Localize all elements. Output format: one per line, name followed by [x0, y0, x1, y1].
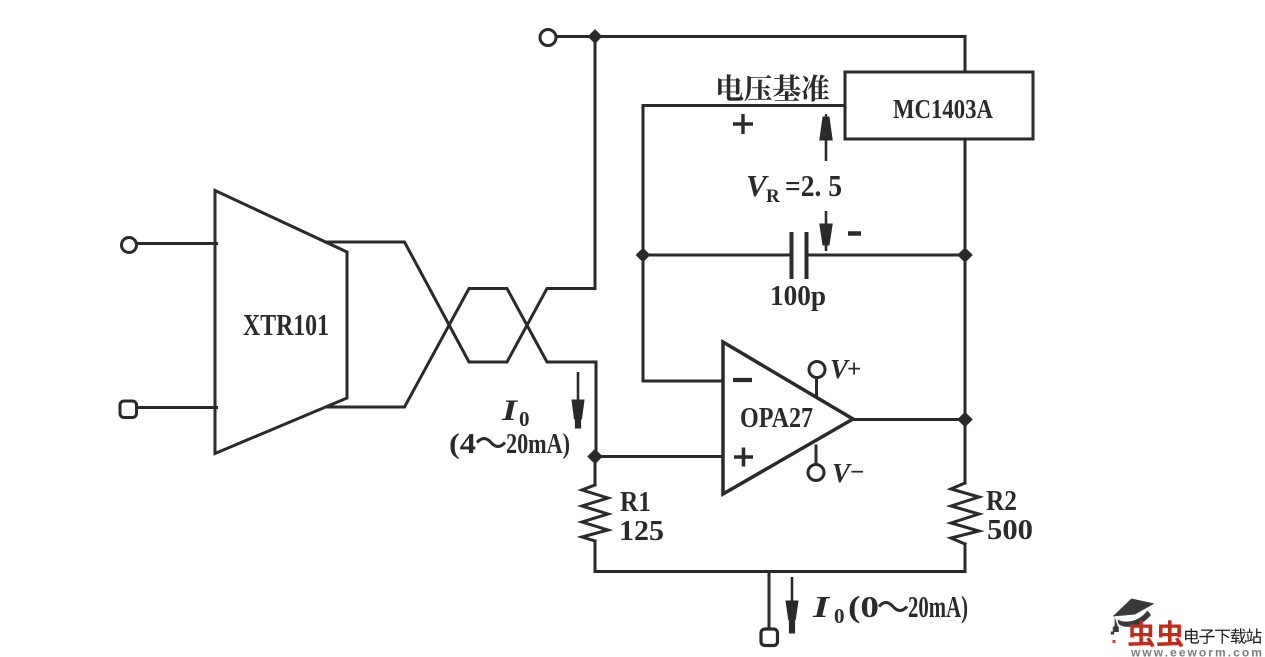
wire op-amp output — [853, 418, 965, 421]
terminal output top — [540, 30, 556, 46]
node cap left — [636, 248, 651, 263]
wire output stub — [768, 572, 771, 630]
node A — [587, 449, 603, 465]
arrow VR down — [820, 211, 832, 251]
wire right rail down to R2 — [964, 255, 967, 483]
pin V+ circle — [809, 362, 825, 378]
wire R2 to bottom rail — [964, 544, 967, 572]
svg-text:XTR101: XTR101 — [243, 307, 329, 342]
svg-text:(0: (0 — [848, 589, 879, 624]
wire input bottom — [137, 406, 217, 409]
watermark 电子下载站 — [1185, 628, 1261, 644]
svg-text:125: 125 — [619, 516, 664, 547]
node op-amp output — [957, 412, 973, 428]
svg-text:20mA): 20mA) — [506, 429, 570, 460]
voltage reference U2 MC1403A box — [845, 72, 1033, 139]
svg-text:(4: (4 — [449, 429, 476, 460]
pin V- circle — [808, 465, 824, 481]
svg-text:MC1403A: MC1403A — [893, 94, 993, 124]
svg-text:OPA27: OPA27 — [740, 403, 813, 434]
terminal input top-left — [122, 238, 137, 253]
svg-text:R2: R2 — [986, 486, 1017, 517]
svg-text:R1: R1 — [620, 487, 651, 518]
arrow I0 mid — [572, 372, 584, 428]
svg-text:R: R — [766, 186, 780, 207]
label 电压基准 voltage reference — [718, 74, 829, 101]
capacitor C1 right wire — [809, 254, 965, 257]
wire twisted-pair A from XTR101 top output to top rail — [326, 37, 595, 363]
svg-text:=2. 5: =2. 5 — [785, 168, 842, 203]
arrow VR up — [820, 114, 832, 161]
wire MC1403A bottom pin to cap node — [964, 139, 967, 255]
op-amp non-inverting label — [734, 448, 753, 467]
arrow I0 bottom — [786, 577, 798, 633]
svg-text:0: 0 — [519, 407, 530, 431]
svg-text:0: 0 — [834, 604, 845, 628]
wire MC1403A left pin to cap node — [643, 106, 845, 256]
resistor R1 zigzag — [582, 485, 608, 541]
wire non-inverting input — [595, 455, 723, 458]
op-amp inverting label — [733, 378, 752, 382]
svg-text:100p: 100p — [770, 280, 826, 312]
wire cap node to op-amp inverting input — [643, 255, 723, 381]
terminal input bottom-left — [120, 401, 137, 418]
svg-text:20mA): 20mA) — [908, 589, 968, 624]
wire twisted-pair B from XTR101 bottom output to node A — [327, 289, 596, 457]
svg-text:I: I — [812, 589, 831, 624]
wire bottom rail — [595, 570, 965, 573]
svg-text:500: 500 — [987, 515, 1033, 546]
XTR101 body — [215, 191, 347, 454]
wire input top — [137, 242, 217, 245]
svg-text:V: V — [832, 458, 852, 488]
svg-text:www.eeworm.com: www.eeworm.com — [1130, 646, 1264, 657]
op-amp U1 OPA27 triangle — [723, 342, 853, 494]
minus sign at cap — [848, 231, 861, 236]
pin V- stub — [815, 446, 818, 464]
svg-text:I: I — [501, 394, 519, 427]
terminal output bottom — [761, 629, 778, 646]
wire top rail — [557, 37, 966, 73]
node cap right — [957, 247, 973, 263]
wire node A to R1 — [594, 457, 597, 486]
watermark graduation cap board — [1111, 599, 1155, 644]
svg-text:+: + — [847, 356, 861, 383]
resistor R2 zigzag — [951, 483, 979, 544]
capacitor C1 plates — [790, 234, 794, 277]
svg-text:−: − — [850, 459, 864, 486]
wire R1 to bottom rail — [594, 541, 597, 572]
capacitor C1 left wire — [643, 254, 789, 257]
watermark 虫虫 — [1128, 620, 1183, 647]
pin V+ stub — [815, 378, 818, 396]
node on top rail — [588, 29, 603, 44]
plus sign at reference — [733, 114, 753, 134]
